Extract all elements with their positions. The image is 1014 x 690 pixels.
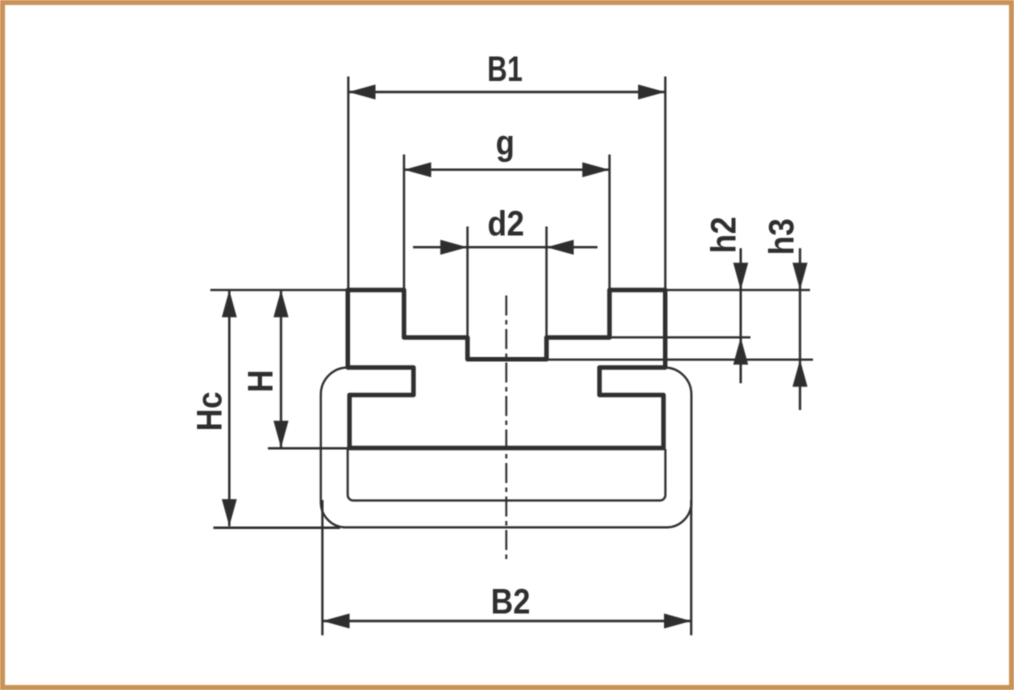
arrow B2 right	[664, 614, 691, 629]
arrow d2 right (outside, pointing left)	[547, 240, 574, 255]
dimension line B1	[348, 91, 665, 93]
arrow h3 top (pointing down)	[793, 263, 808, 290]
dimension line h3	[799, 248, 801, 410]
dimension line d2	[413, 246, 598, 248]
dimension line h2	[740, 248, 742, 383]
reference line Hc bottom	[213, 527, 340, 530]
svg-text:Hc: Hc	[190, 392, 229, 431]
extension line d2 right	[545, 227, 547, 339]
reference line top surface right (for h2 and h3)	[665, 289, 810, 291]
dimension line Hc	[228, 290, 230, 526]
svg-text:d2: d2	[488, 205, 525, 244]
dimension line B2	[322, 620, 691, 622]
arrow d2 left (outside, pointing right)	[440, 240, 467, 255]
reference line H bottom	[268, 447, 352, 449]
extension line B1 right	[664, 77, 666, 291]
extension line B2 left	[321, 500, 323, 635]
dimension line g	[404, 168, 610, 170]
arrow B2 left	[322, 614, 349, 629]
svg-text:H: H	[242, 370, 281, 393]
arrow h2 top (pointing down)	[733, 263, 748, 290]
arrow H bottom	[274, 421, 289, 448]
arrow Hc top	[222, 290, 237, 317]
extension line g right	[608, 155, 610, 291]
arrow B1 left	[348, 85, 375, 100]
svg-text:B1: B1	[487, 49, 522, 89]
C-channel inner bottom contour (thin)	[348, 449, 666, 501]
arrow H top	[274, 290, 289, 317]
extension line B2 right	[690, 500, 692, 635]
C-channel outer contour (thin)	[321, 368, 692, 528]
svg-text:h2: h2	[705, 217, 744, 254]
dimension line H	[280, 290, 282, 448]
arrow B1 right	[638, 85, 665, 100]
svg-text:h3: h3	[763, 218, 802, 255]
reference line h2 bottom	[610, 336, 751, 338]
extension line B1 left	[347, 77, 349, 291]
svg-text:B2: B2	[491, 581, 530, 620]
extension line d2 left	[466, 227, 468, 339]
wear strip profile outline (thick)	[348, 290, 665, 448]
arrow g right	[582, 162, 609, 177]
reference line top surface left (for Hc and H)	[210, 289, 347, 291]
svg-text:g: g	[496, 123, 515, 162]
extension line g left	[403, 155, 405, 291]
centerline (dash-dot)	[505, 296, 507, 560]
arrow h3 bottom (pointing up)	[793, 360, 808, 387]
arrow g left	[404, 162, 431, 177]
arrow h2 bottom (pointing up)	[733, 337, 748, 364]
reference line h3 bottom	[547, 358, 814, 360]
arrow Hc bottom	[222, 499, 237, 526]
